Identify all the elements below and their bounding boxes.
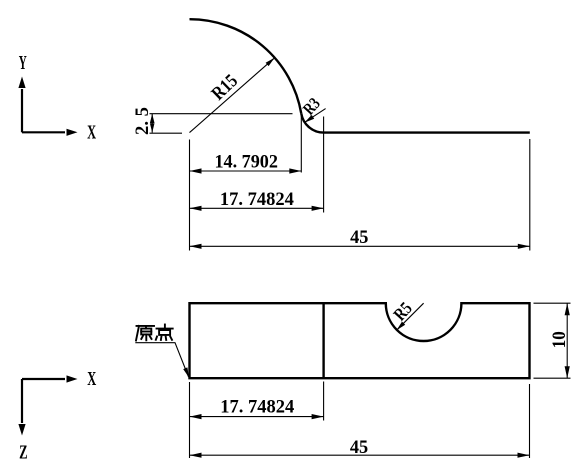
svg-text:2. 5: 2. 5: [132, 107, 153, 135]
svg-text:45: 45: [350, 227, 368, 248]
svg-text:17. 74824: 17. 74824: [220, 189, 294, 210]
svg-text:Z: Z: [19, 442, 28, 463]
svg-text:10: 10: [549, 331, 570, 348]
svg-text:17. 74824: 17. 74824: [220, 396, 294, 417]
svg-text:14. 7902: 14. 7902: [214, 152, 278, 173]
svg-text:45: 45: [350, 437, 368, 458]
svg-text:X: X: [87, 369, 96, 390]
svg-text:X: X: [87, 123, 96, 144]
svg-text:Y: Y: [19, 53, 27, 74]
